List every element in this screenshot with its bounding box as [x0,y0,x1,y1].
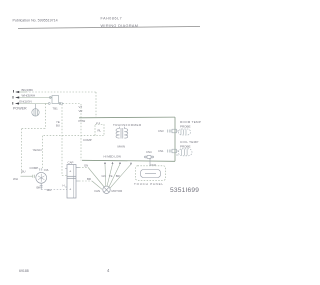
svg-text:BU: BU [56,124,60,128]
svg-text:YE/GN: YE/GN [33,148,42,152]
svg-text:PROBE: PROBE [180,145,191,149]
svg-text:TB1: TB1 [53,106,59,110]
svg-text:CN3: CN3 [158,129,164,133]
svg-text:GN: GN [84,163,88,167]
svg-text:POW: POW [79,119,86,123]
svg-text:+: + [69,169,72,174]
svg-text:HI MED LOW: HI MED LOW [104,154,122,158]
svg-text:BK(2)BK: BK(2)BK [22,88,34,92]
svg-text:FAH086L7: FAH086L7 [101,17,123,21]
svg-text:WH(3)WH: WH(3)WH [22,94,36,98]
svg-text:Publication No. 5995519714: Publication No. 5995519714 [13,19,58,23]
svg-text:GN: GN [102,174,106,178]
svg-text:CN2: CN2 [151,163,157,167]
svg-text:4: 4 [107,268,110,273]
svg-text:ROOM TEMP: ROOM TEMP [180,120,201,124]
svg-text:COMP.: COMP. [30,166,39,170]
svg-text:MAIN: MAIN [118,144,126,148]
svg-text:5351I699: 5351I699 [170,187,199,194]
svg-text:BR: BR [116,174,120,178]
svg-text:RL: RL [98,129,102,133]
svg-text:MOTOR: MOTOR [112,189,123,193]
svg-text:COIL TEMP: COIL TEMP [180,140,199,144]
svg-text:POWER: POWER [13,107,27,111]
svg-text:BK: BK [37,185,41,189]
svg-text:OVL: OVL [44,168,50,172]
svg-text:VR: VR [79,109,83,113]
svg-text:WH: WH [13,177,18,181]
svg-text:COMP: COMP [83,138,92,142]
svg-text:GN(1)GN: GN(1)GN [19,100,32,104]
svg-text:YE: YE [109,174,113,178]
svg-text:WH: WH [47,188,52,192]
svg-text:PROBE: PROBE [180,125,191,129]
svg-text:TRANSFORMER: TRANSFORMER [113,123,142,127]
svg-text:CN1: CN1 [158,149,164,153]
svg-text:BU: BU [22,169,26,173]
svg-text:CAP: CAP [68,161,74,165]
svg-text:TOUCH PANEL: TOUCH PANEL [134,182,164,186]
svg-text:FAN: FAN [95,189,101,193]
svg-text:+: + [69,187,72,192]
svg-text:CN4: CN4 [146,150,152,154]
svg-text:69188: 69188 [19,269,29,273]
svg-text:BR: BR [87,177,91,181]
svg-text:H: H [63,184,65,188]
